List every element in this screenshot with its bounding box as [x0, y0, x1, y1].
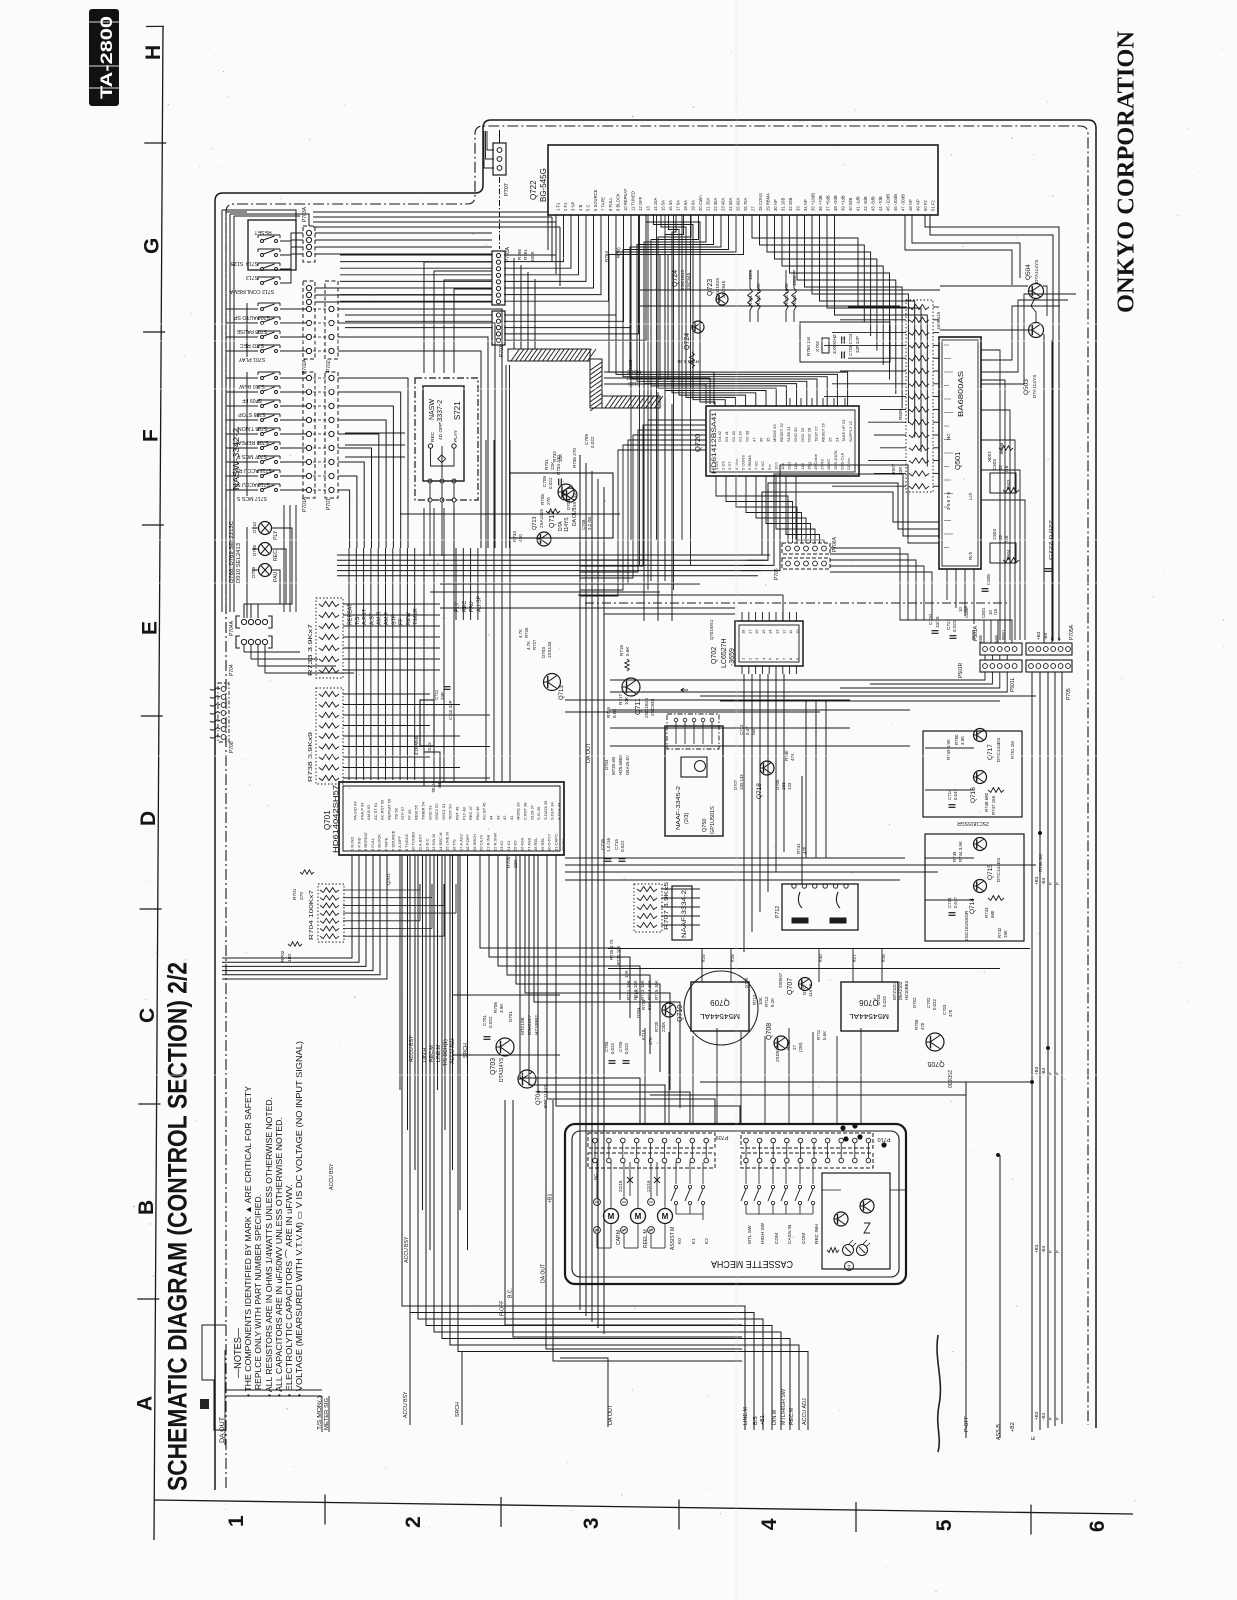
svg-text:R720: R720 — [654, 1021, 659, 1032]
svg-text:11 c: 11 c — [780, 463, 785, 470]
svg-text:R745: R745 — [952, 851, 957, 862]
svg-text:10K: 10K — [654, 980, 659, 988]
svg-text:AM.F: AM.F — [384, 611, 390, 625]
svg-text:SRCH: SRCH — [455, 1402, 461, 1417]
svg-text:R764: R764 — [604, 251, 609, 262]
svg-text:R708: R708 — [914, 1019, 919, 1030]
svg-text:D: D — [137, 811, 160, 826]
svg-text:P709: P709 — [716, 1134, 729, 1140]
svg-text:LINE.M: LINE.M — [743, 1407, 749, 1425]
svg-text:22/16: 22/16 — [646, 1180, 651, 1192]
svg-text:2 F1: 2 F1 — [563, 202, 568, 211]
svg-text:37: 37 — [752, 437, 757, 442]
svg-text:43: 43 — [495, 815, 500, 820]
svg-text:ACCU ADJ: ACCU ADJ — [802, 1398, 808, 1425]
svg-text:6: 6 — [1086, 1520, 1109, 1532]
svg-text:43 -5dB: 43 -5dB — [871, 196, 876, 211]
svg-text:32 20B: 32 20B — [788, 198, 793, 211]
svg-text:2SC1815: 2SC1815 — [680, 270, 686, 290]
svg-text:18 P.OFF: 18 P.OFF — [465, 834, 470, 851]
svg-text:(2/3): (2/3) — [684, 813, 690, 824]
svg-text:R717: R717 — [618, 694, 623, 705]
svg-text:0.022: 0.022 — [882, 995, 887, 1007]
svg-text:23 K2: 23 K2 — [499, 840, 504, 851]
svg-text:CASS.IN: CASS.IN — [787, 1224, 793, 1244]
svg-text:26 70A: 26 70A — [743, 198, 748, 211]
svg-text:R704 100Kx7: R704 100Kx7 — [309, 890, 315, 940]
svg-text:2SC1815SGR: 2SC1815SGR — [957, 820, 989, 826]
svg-text:C713: C713 — [947, 897, 952, 908]
svg-text:F: F — [1057, 637, 1062, 640]
svg-text:50 F2: 50 F2 — [923, 200, 928, 211]
svg-text:HIGH SW: HIGH SW — [760, 1222, 766, 1244]
svg-text:220K: 220K — [661, 1022, 666, 1032]
svg-text:10K: 10K — [640, 980, 645, 988]
svg-text:11: 11 — [788, 629, 793, 634]
svg-text:R766: R766 — [517, 249, 522, 260]
svg-text:G1 39: G1 39 — [738, 430, 743, 442]
svg-text:33: 33 — [796, 206, 801, 211]
svg-text:F: F — [1055, 882, 1060, 885]
svg-text:D705: D705 — [566, 499, 571, 510]
svg-text:S128 37: S128 37 — [529, 804, 534, 820]
svg-text:0.047: 0.047 — [953, 896, 958, 908]
svg-text:REC INH: REC INH — [814, 1224, 820, 1244]
svg-text:D5A210Z: D5A210Z — [898, 981, 903, 1000]
svg-text:13 DIN.M: 13 DIN.M — [431, 834, 436, 851]
svg-text:OSC1 51: OSC1 51 — [441, 803, 446, 820]
svg-text:36: 36 — [758, 437, 763, 442]
svg-text:0.022: 0.022 — [624, 1042, 629, 1054]
svg-text:12: 12 — [781, 629, 786, 634]
svg-text:D702: D702 — [912, 997, 917, 1008]
svg-text:Q722: Q722 — [529, 180, 538, 200]
svg-text:47 -30dB: 47 -30dB — [901, 194, 906, 211]
svg-text:C715: C715 — [614, 839, 619, 850]
svg-text:42: 42 — [502, 815, 507, 820]
svg-text:COM: COM — [774, 1233, 780, 1244]
svg-text:B/S: B/S — [753, 1416, 759, 1425]
svg-text:P707: P707 — [504, 183, 510, 196]
svg-text:C702: C702 — [926, 997, 931, 1008]
svg-text:27: 27 — [751, 206, 756, 211]
svg-text:-B4: -B4 — [1043, 632, 1048, 640]
svg-text:27 ASS: 27 ASS — [526, 837, 531, 851]
svg-text:CAP.M: CAP.M — [616, 1230, 622, 1245]
svg-text:1SS133: 1SS133 — [547, 641, 552, 658]
svg-text:DA OUT: DA OUT — [608, 1404, 614, 1425]
svg-text:B: B — [135, 1200, 158, 1215]
svg-text:33P 33P: 33P 33P — [855, 336, 860, 353]
svg-text:35 +10dB: 35 +10dB — [811, 193, 816, 211]
svg-text:PLY 48: PLY 48 — [461, 806, 466, 820]
svg-text:+B3: +B3 — [1034, 876, 1039, 885]
svg-text:16 Colon: 16 Colon — [813, 454, 818, 470]
svg-text:DTC144ES: DTC144ES — [996, 858, 1002, 882]
svg-text:PLY: PLY — [273, 530, 279, 540]
svg-text:100Kx15: 100Kx15 — [936, 311, 941, 330]
svg-text:Q710: Q710 — [677, 1005, 684, 1022]
svg-text:#25: #25 — [701, 954, 706, 962]
svg-text:STP: STP — [391, 614, 397, 625]
svg-text:R769 3.9K: R769 3.9K — [676, 359, 699, 364]
svg-text:2 G6: 2 G6 — [721, 461, 726, 470]
svg-text:ASSIST M: ASSIST M — [670, 1227, 676, 1250]
svg-text:P501R: P501R — [958, 662, 964, 678]
svg-text:10 b: 10 b — [773, 461, 778, 470]
svg-text:BA6800AS: BA6800AS — [956, 371, 965, 417]
svg-text:3 NP: 3 NP — [571, 201, 576, 211]
svg-text:Q712: Q712 — [549, 511, 556, 528]
svg-text:7 SOURCE: 7 SOURCE — [390, 830, 395, 851]
svg-text:S701 PLAY: S701 PLAY — [238, 356, 265, 362]
svg-text:REC.M: REC.M — [429, 1045, 435, 1062]
svg-text:17: 17 — [747, 629, 752, 634]
svg-text:15: 15 — [761, 629, 766, 634]
svg-text:100K: 100K — [530, 250, 535, 262]
svg-text:12 d: 12 d — [787, 462, 792, 470]
svg-text:C709: C709 — [584, 434, 589, 445]
svg-text:22 R.SNR: 22 R.SNR — [492, 833, 497, 851]
svg-text:18: 18 — [741, 629, 746, 634]
svg-text:R721: R721 — [626, 989, 631, 1000]
svg-text:37 +5dB: 37 +5dB — [826, 195, 831, 211]
svg-text:S714: S714 — [246, 260, 258, 266]
svg-text:BG-545G: BG-545G — [539, 168, 548, 202]
svg-text:21 R.INH: 21 R.INH — [486, 834, 491, 851]
svg-text:D709: D709 — [251, 567, 256, 578]
svg-text:28 CONS: 28 CONS — [758, 193, 763, 211]
svg-text:D701: D701 — [508, 1011, 513, 1022]
svg-text:R715: R715 — [654, 989, 659, 1000]
svg-text:K1: K1 — [691, 1238, 697, 1244]
svg-text:(2W): (2W) — [798, 1042, 803, 1052]
svg-text:NAAF-3334-2: NAAF-3334-2 — [682, 889, 688, 938]
svg-text:2SC945: 2SC945 — [686, 272, 692, 290]
svg-text:5: 5 — [768, 657, 773, 660]
svg-text:0.022: 0.022 — [610, 1042, 615, 1054]
svg-text:Q750: Q750 — [702, 819, 708, 832]
svg-text:9 b: 9 b — [767, 464, 772, 470]
svg-text:R701: R701 — [292, 888, 298, 900]
svg-text:R707 3.9Kx5: R707 3.9Kx5 — [664, 882, 670, 930]
svg-text:—NOTES—: —NOTES— — [232, 1328, 244, 1378]
svg-text:DIN.M: DIN.M — [772, 1409, 778, 1425]
svg-text:R748 680: R748 680 — [984, 792, 989, 812]
svg-text:2SD947: 2SD947 — [778, 972, 783, 988]
svg-text:28 REL: 28 REL — [533, 837, 538, 851]
svg-text:16 3A: 16 3A — [668, 200, 673, 211]
svg-text:MTL SW: MTL SW — [747, 1225, 753, 1244]
svg-text:DIN.H: DIN.H — [422, 1048, 428, 1062]
svg-text:S12B: S12B — [230, 260, 243, 266]
svg-text:S717 MCS S: S717 MCS S — [236, 495, 267, 501]
svg-text:TEST 27: TEST 27 — [814, 426, 819, 442]
svg-text:C703: C703 — [942, 1004, 947, 1015]
svg-text:T/S BCH(1): T/S BCH(1) — [443, 1039, 449, 1066]
svg-text:P501L: P501L — [1010, 677, 1016, 692]
svg-text:44: 44 — [489, 815, 494, 820]
svg-text:ANA.P 63: ANA.P 63 — [359, 802, 364, 820]
svg-text:23 40A: 23 40A — [721, 198, 726, 211]
svg-text:16: 16 — [754, 629, 759, 634]
svg-text:47K: 47K — [790, 753, 795, 761]
svg-text:K2: K2 — [704, 1238, 710, 1244]
svg-text:4.00MHz: 4.00MHz — [414, 735, 420, 755]
svg-text:FF: FF — [399, 618, 405, 625]
svg-text:30 O-PLY: 30 O-PLY — [547, 833, 552, 851]
svg-text:SCHEMATIC DIAGRAM (CONTROL SEC: SCHEMATIC DIAGRAM (CONTROL SECTION) 2/2 — [163, 962, 193, 1491]
svg-text:20 Calm: 20 Calm — [698, 195, 703, 211]
svg-text:2SC945: 2SC945 — [650, 698, 656, 716]
svg-text:12 OFF: 12 OFF — [638, 196, 643, 211]
svg-text:-B4: -B4 — [1041, 1067, 1046, 1075]
svg-text:AC.ST 61: AC.ST 61 — [373, 802, 378, 820]
svg-text:-3337-2: -3337-2 — [437, 400, 444, 424]
svg-text:S12B: S12B — [628, 359, 633, 370]
svg-text:LC6527H: LC6527H — [721, 638, 728, 668]
svg-text:6: 6 — [775, 657, 780, 660]
svg-text:S12B: S12B — [628, 381, 640, 387]
svg-text:8 A.OFF: 8 A.OFF — [397, 836, 402, 851]
svg-text:C706: C706 — [604, 1041, 609, 1052]
svg-text:R714: R714 — [647, 989, 652, 1000]
svg-text:R702: R702 — [280, 950, 286, 962]
svg-text:0.022: 0.022 — [932, 998, 937, 1010]
svg-text:2: 2 — [402, 1516, 425, 1528]
svg-text:P501A: P501A — [973, 625, 979, 641]
svg-text:PAU: PAU — [469, 601, 475, 612]
svg-text:8: 8 — [788, 657, 793, 660]
svg-text:3.9K: 3.9K — [499, 1003, 504, 1013]
svg-text:R710: R710 — [786, 1039, 791, 1050]
svg-text:10K: 10K — [558, 453, 563, 462]
svg-text:5: 5 — [933, 1519, 956, 1531]
svg-text:H: H — [142, 45, 165, 60]
svg-text:48 NP: 48 NP — [908, 199, 913, 211]
svg-text:3: 3 — [580, 1517, 603, 1529]
svg-text:T/S: T/S — [355, 616, 361, 625]
svg-text:P712: P712 — [775, 906, 781, 918]
svg-text:Q504: Q504 — [1025, 264, 1032, 280]
svg-text:F: F — [1055, 1250, 1060, 1253]
svg-text:HZ10BB2: HZ10BB2 — [534, 1015, 539, 1035]
svg-text:REPEAT 59: REPEAT 59 — [387, 798, 392, 820]
svg-text:Q716: Q716 — [970, 787, 977, 803]
svg-text:39 +1dB: 39 +1dB — [841, 195, 846, 211]
svg-text:R713: R713 — [752, 994, 757, 1005]
svg-text:E: E — [1031, 1436, 1037, 1440]
svg-text:X702: X702 — [815, 340, 821, 352]
svg-text:ACCU ADJ: ACCU ADJ — [450, 1038, 456, 1064]
svg-text:2SD930: 2SD930 — [946, 1070, 952, 1088]
svg-text:R(W): R(W) — [616, 247, 621, 258]
svg-text:MTL/HIGH SW: MTL/HIGH SW — [781, 1388, 787, 1425]
svg-text:R741: R741 — [796, 843, 801, 854]
svg-text:OSC 28: OSC 28 — [807, 427, 812, 442]
svg-text:R726: R726 — [524, 627, 529, 638]
svg-text:AC.RST 60: AC.RST 60 — [380, 799, 385, 820]
svg-text:8 NC: 8 NC — [760, 461, 765, 470]
svg-text:TAKE UP 23: TAKE UP 23 — [841, 419, 846, 442]
svg-text:R713: R713 — [640, 989, 645, 1000]
svg-text:REEL.M: REEL.M — [643, 1229, 649, 1248]
svg-text:18 NC: 18 NC — [826, 459, 831, 470]
svg-text:P705: P705 — [1066, 688, 1072, 700]
svg-text:3 REPEAT: 3 REPEAT — [363, 831, 368, 851]
svg-text:R744 3.9K: R744 3.9K — [958, 841, 963, 862]
svg-text:+B3: +B3 — [1034, 1244, 1039, 1253]
svg-text:34 NP: 34 NP — [803, 199, 808, 211]
svg-text:NASW-3342-2: NASW-3342-2 — [231, 428, 241, 490]
svg-text:PAU 46: PAU 46 — [475, 806, 480, 820]
svg-text:DTA114YS: DTA114YS — [499, 1057, 505, 1082]
svg-text:TIMER: TIMER — [413, 608, 419, 625]
svg-text:1.0 /16: 1.0 /16 — [606, 838, 611, 852]
svg-text:D710: D710 — [252, 522, 257, 533]
svg-text:8 FULL: 8 FULL — [608, 197, 613, 211]
svg-text:114YS: 114YS — [808, 984, 813, 997]
svg-text:F: F — [1050, 637, 1055, 640]
svg-text:SRCH: SRCH — [463, 1043, 469, 1058]
svg-text:Q701WS1: Q701WS1 — [709, 619, 714, 640]
svg-text:P-OFF: P-OFF — [500, 1300, 506, 1316]
svg-text:+B3: +B3 — [1036, 631, 1041, 640]
svg-text:2: 2 — [747, 657, 752, 660]
svg-text:S.IN 36: S.IN 36 — [536, 806, 541, 820]
svg-text:14 10A: 14 10A — [653, 198, 658, 211]
svg-text:NC: NC — [946, 433, 951, 440]
svg-text:18 6A: 18 6A — [683, 200, 688, 211]
svg-text:R760 1M: R760 1M — [806, 337, 811, 356]
svg-text:10K: 10K — [633, 980, 638, 988]
svg-text:R732: R732 — [552, 451, 557, 462]
svg-text:PLAY: PLAY — [453, 429, 459, 442]
svg-text:D708: D708 — [744, 977, 749, 988]
svg-text:30 NP: 30 NP — [773, 199, 778, 211]
svg-text:Q713: Q713 — [532, 517, 538, 530]
svg-text:M54544AL: M54544AL — [849, 1012, 889, 1019]
svg-text:R762 100K: R762 100K — [756, 282, 761, 306]
svg-text:9 BLOCK: 9 BLOCK — [616, 193, 621, 211]
svg-text:R725 4.7K: R725 4.7K — [609, 939, 614, 960]
svg-text:Q501: Q501 — [953, 452, 962, 470]
svg-text:P701: P701 — [326, 498, 332, 510]
svg-text:P706: P706 — [774, 568, 780, 580]
svg-text:24: 24 — [834, 437, 839, 442]
svg-text:Q715: Q715 — [987, 864, 994, 880]
svg-text:SUPPLY 22: SUPPLY 22 — [848, 420, 853, 442]
svg-text:AM.R: AM.R — [377, 611, 383, 625]
svg-text:D768, D769 SEL2213C: D768, D769 SEL2213C — [229, 521, 235, 583]
svg-text:R746 1M: R746 1M — [1038, 854, 1043, 872]
svg-text:R727: R727 — [532, 639, 537, 650]
svg-text:• ELECTROLYTIC CAPACITORS ⌒ AR: • ELECTROLYTIC CAPACITORS ⌒ ARE IN uF/WV… — [285, 1184, 294, 1397]
svg-text:C723 C724: C723 C724 — [848, 333, 853, 356]
svg-text:Q711: Q711 — [635, 698, 642, 715]
svg-text:D5A210Y: D5A210Y — [527, 1015, 532, 1035]
svg-text:25 K0: 25 K0 — [513, 840, 518, 851]
svg-text:P703: P703 — [499, 345, 505, 357]
svg-text:15 g: 15 g — [806, 462, 811, 470]
svg-text:470: 470 — [802, 846, 807, 854]
svg-text:P705A: P705A — [1069, 624, 1075, 640]
svg-text:ASS.B: ASS.B — [996, 1424, 1002, 1440]
svg-text:2SC1815: 2SC1815 — [644, 698, 650, 718]
svg-text:12 B.C.: 12 B.C. — [424, 838, 429, 851]
svg-text:S721: S721 — [453, 401, 462, 420]
svg-text:S713: S713 — [246, 274, 258, 280]
svg-text:R750: R750 — [954, 734, 959, 745]
svg-text:14 f: 14 f — [800, 462, 805, 470]
svg-text:24 K1: 24 K1 — [506, 840, 511, 851]
svg-text:13 e: 13 e — [793, 461, 798, 470]
svg-text:5 CONS: 5 CONS — [740, 455, 745, 470]
svg-text:14: 14 — [768, 629, 773, 634]
svg-text:1M: 1M — [437, 782, 442, 788]
svg-text:-B4: -B4 — [1041, 877, 1046, 885]
svg-text:Q703: Q703 — [490, 1058, 497, 1075]
svg-text:/16: /16 — [993, 608, 998, 615]
svg-text:ACCU BSY: ACCU BSY — [329, 1163, 335, 1190]
svg-text:GND 53: GND 53 — [427, 805, 432, 820]
svg-text:15 LINE.M: 15 LINE.M — [445, 832, 450, 851]
svg-text:19 SRCH: 19 SRCH — [472, 834, 477, 851]
svg-text:1: 1 — [741, 657, 746, 660]
svg-text:PA.IND 64: PA.IND 64 — [353, 801, 358, 820]
svg-text:22K: 22K — [550, 461, 555, 470]
svg-text:13: 13 — [775, 629, 780, 634]
svg-text:31 10B: 31 10B — [781, 198, 786, 211]
svg-text:D708: D708 — [252, 545, 257, 556]
svg-text:10 REPEAT: 10 REPEAT — [623, 188, 628, 211]
svg-text:Q713: Q713 — [559, 685, 565, 700]
svg-text:/16: /16 — [963, 605, 968, 612]
svg-text:100K: 100K — [748, 268, 753, 280]
svg-text:0.022: 0.022 — [590, 436, 595, 448]
svg-text:PLY: PLY — [455, 602, 461, 612]
svg-text:Q723: Q723 — [707, 279, 714, 296]
svg-text:3.00MHZ: 3.00MHZ — [832, 334, 838, 354]
svg-text:40 0dB: 40 0dB — [848, 198, 853, 211]
svg-text:9 TND1/2: 9 TND1/2 — [404, 833, 409, 851]
svg-text:R747 15K: R747 15K — [991, 795, 996, 815]
svg-text:0.022: 0.022 — [488, 1016, 493, 1028]
svg-text:S712 CONL/REMA: S712 CONL/REMA — [229, 288, 274, 294]
svg-text:CASSETTE MECHA: CASSETTE MECHA — [711, 1258, 793, 1269]
svg-text:#28: #28 — [730, 954, 735, 962]
svg-text:24 50A: 24 50A — [728, 198, 733, 211]
svg-text:19 6A: 19 6A — [691, 200, 696, 211]
svg-text:4 5 6 7 8: 4 5 6 7 8 — [946, 492, 951, 510]
svg-text:DA OUT: DA OUT — [541, 1263, 547, 1283]
svg-text:11 TUNED: 11 TUNED — [631, 191, 636, 211]
svg-text:R749 3.9K: R749 3.9K — [946, 739, 951, 760]
svg-text:1 F1: 1 F1 — [556, 202, 561, 211]
svg-text:36 +7dB: 36 +7dB — [818, 195, 823, 211]
svg-text:Q704: Q704 — [536, 1090, 542, 1105]
svg-text:430: 430 — [518, 534, 523, 542]
svg-text:RESET 32: RESET 32 — [779, 422, 784, 442]
svg-text:133: 133 — [787, 782, 792, 790]
svg-text:D703: D703 — [541, 647, 546, 658]
svg-text:S.OUT 34: S.OUT 34 — [550, 802, 555, 820]
svg-text:46 -20dB: 46 -20dB — [893, 194, 898, 211]
svg-text:R711: R711 — [816, 1029, 821, 1040]
svg-text:5.6K: 5.6K — [634, 989, 639, 998]
svg-text:4: 4 — [758, 1518, 781, 1530]
svg-text:REC: REC — [273, 550, 279, 561]
